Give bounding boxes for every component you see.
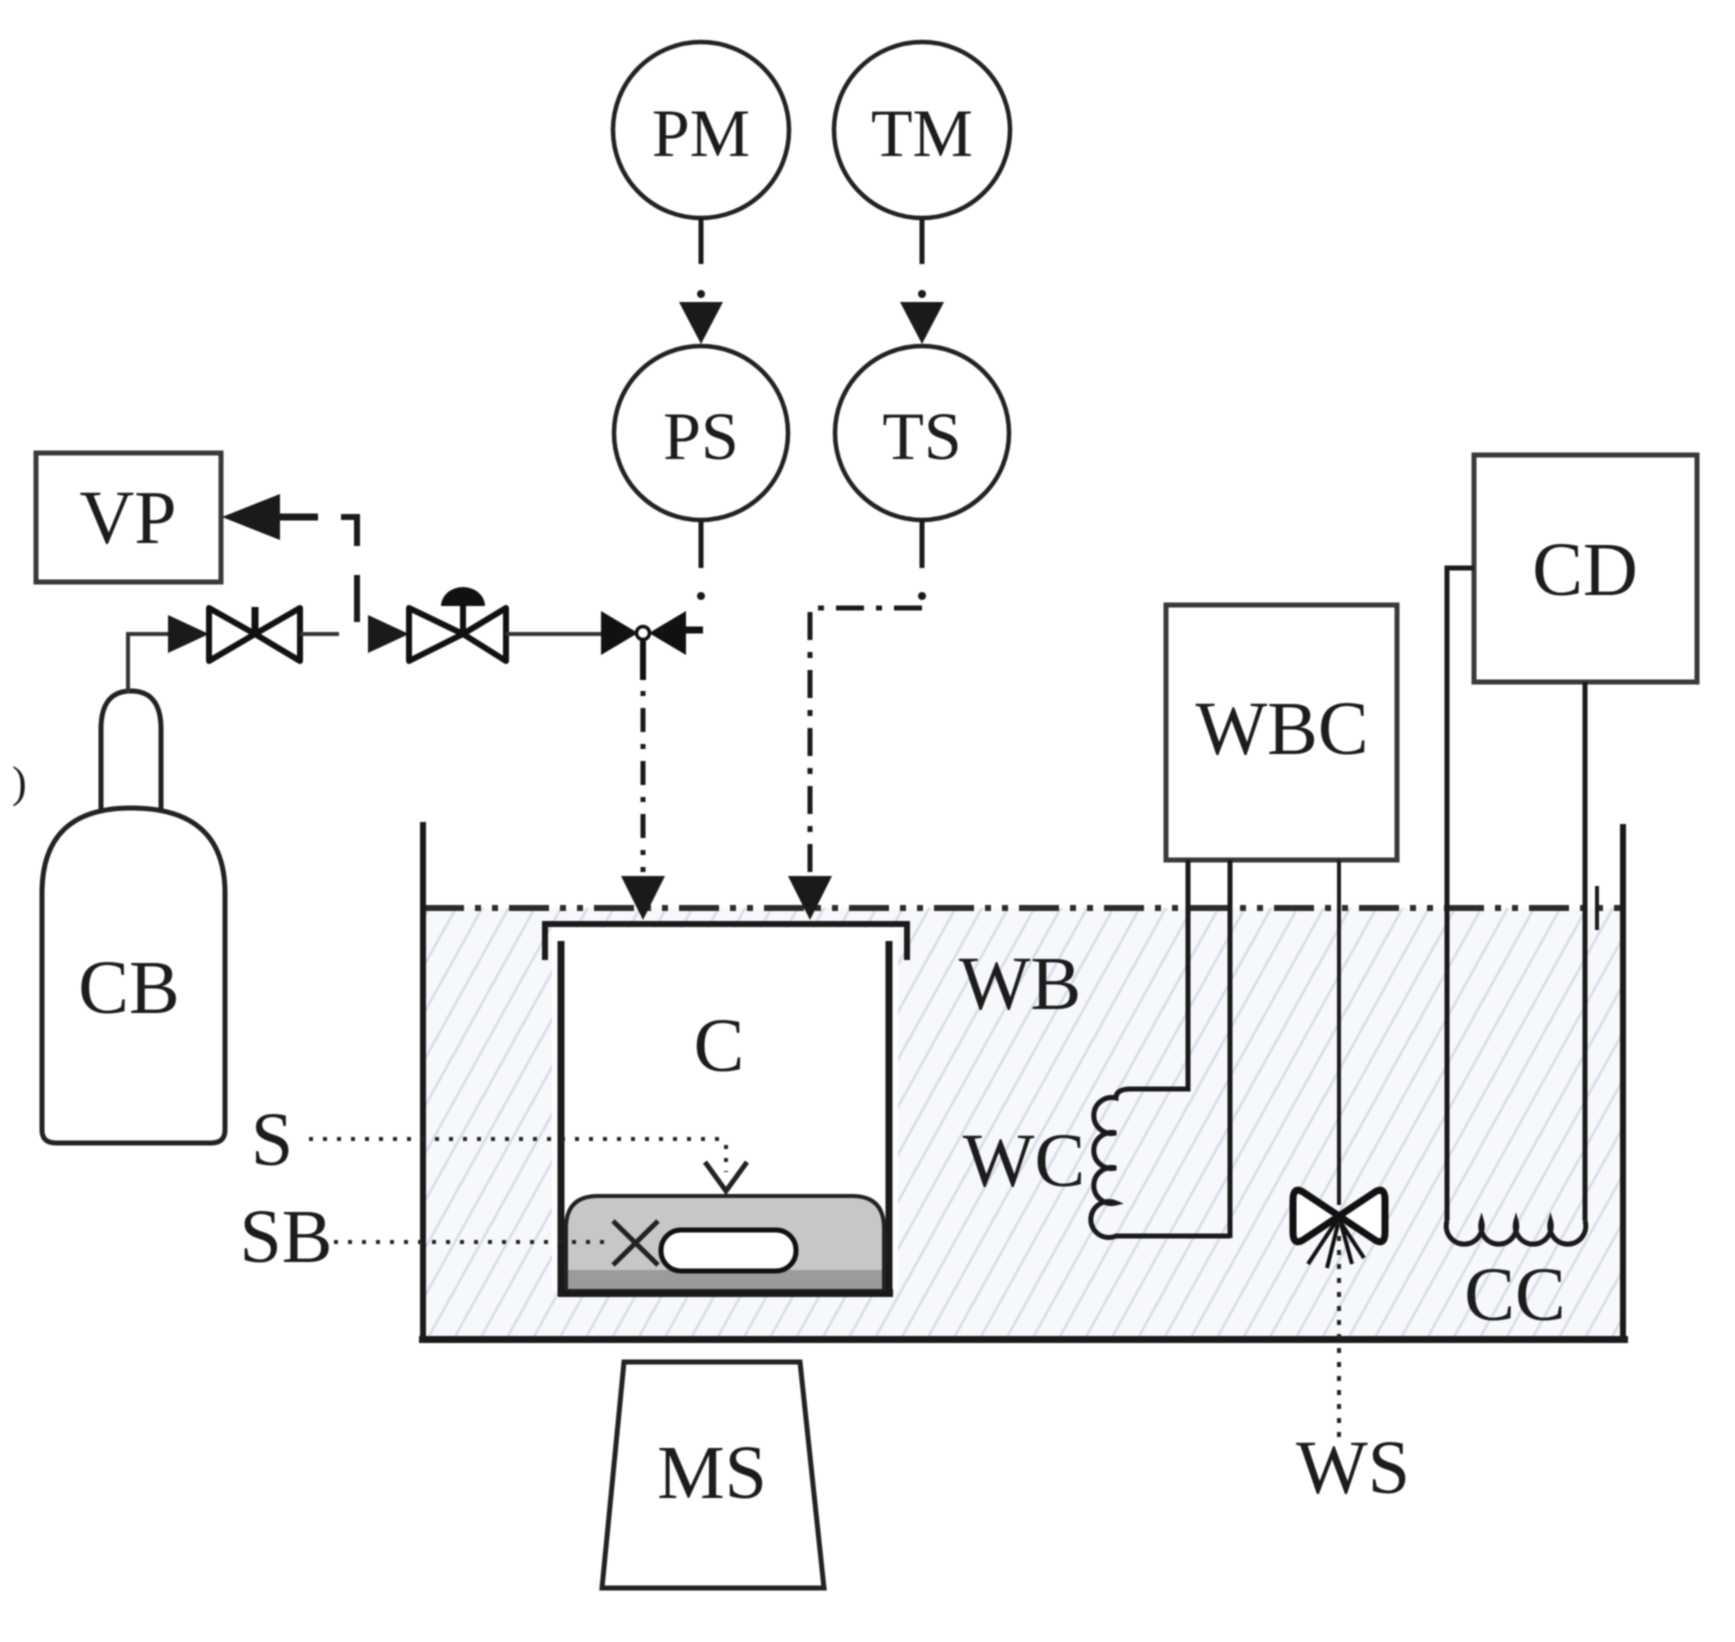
label SB with dotted pointer <box>240 1195 658 1279</box>
vessel interior white <box>552 928 898 1290</box>
sample bed SB <box>566 1196 884 1289</box>
valve V2 globe <box>409 587 506 661</box>
wire V2 to V3 <box>506 632 603 636</box>
cell C lid <box>545 924 907 960</box>
stir bar <box>661 1230 796 1271</box>
svg-text:VP: VP <box>79 476 176 560</box>
heater coil WC wire from WBC <box>1131 860 1188 1089</box>
svg-text:WBC: WBC <box>1195 687 1368 771</box>
wire WBC second <box>1228 860 1233 1238</box>
svg-text:WC: WC <box>963 1119 1085 1203</box>
dashed wire to VP <box>341 517 357 546</box>
svg-text:CC: CC <box>1464 1253 1565 1337</box>
stirrer WS bow <box>1293 1190 1385 1268</box>
cell C walls <box>558 941 893 1296</box>
wire PS down to gas line <box>697 520 705 600</box>
box VP <box>36 453 221 582</box>
instrument circle TS <box>835 346 1009 520</box>
svg-text:MS: MS <box>657 1431 767 1515</box>
label S with dotted pointer <box>251 1098 747 1191</box>
bath right wall <box>1620 824 1626 1340</box>
wire PM to PS <box>679 218 723 344</box>
svg-text:SB: SB <box>240 1195 333 1279</box>
svg-text:PS: PS <box>663 398 739 474</box>
svg-text:C: C <box>694 1004 745 1088</box>
stirrer shaft WS <box>1337 860 1341 1205</box>
svg-text:S: S <box>251 1098 293 1182</box>
svg-text:WB: WB <box>959 942 1081 1026</box>
wire V1 to junction <box>300 632 339 636</box>
valve V1 <box>209 607 300 661</box>
water level tick <box>1595 886 1599 930</box>
bath bottom <box>419 1336 1628 1343</box>
gas cylinder CB <box>42 691 225 1143</box>
svg-text:CD: CD <box>1532 528 1638 612</box>
water line <box>424 905 1622 911</box>
svg-text:TM: TM <box>871 95 973 171</box>
magnetic stirrer MS <box>602 1362 824 1588</box>
wire TM to TS <box>900 218 944 344</box>
instrument circle TM <box>834 42 1010 218</box>
svg-text:TS: TS <box>882 398 961 474</box>
instrument circle PM <box>613 42 789 218</box>
valve V3 solid <box>601 611 703 680</box>
water bath hatched area WB <box>425 908 1623 1337</box>
condenser tube CC <box>1446 568 1586 1244</box>
box CD <box>1474 455 1697 682</box>
bath left wall <box>420 822 426 1340</box>
svg-text:): ) <box>12 758 27 807</box>
svg-text:WS: WS <box>1296 1426 1410 1510</box>
wire CB riser to gas line <box>128 634 168 693</box>
heater coil WC <box>1091 1089 1230 1238</box>
wire TS down jog left <box>788 520 926 920</box>
svg-text:CB: CB <box>78 946 179 1030</box>
arrow A1 <box>168 615 209 653</box>
box WBC <box>1166 605 1397 860</box>
dotted line to WS label <box>1337 1222 1341 1438</box>
arrow into VP <box>222 494 318 540</box>
instrument circle PS <box>614 346 788 520</box>
svg-text:PM: PM <box>652 95 750 171</box>
wire valve V3 down to cell lid <box>621 655 665 920</box>
arrow A2 <box>368 615 409 653</box>
